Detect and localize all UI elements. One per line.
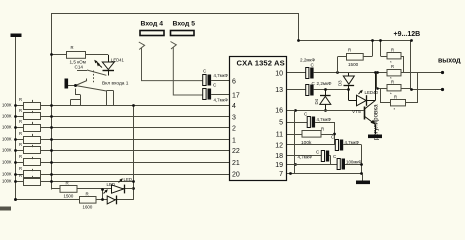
svg-text:100К: 100К [2,179,12,184]
capacitor C 2,2мкФ pin10 [306,68,309,79]
scan smudge bottom-left [0,207,11,211]
resistor 100K trimmer row 116.5 [16,116,24,118]
svg-text:1500: 1500 [348,62,359,67]
switch Вкл входа 1 [68,70,114,106]
wire output 2 [411,89,443,91]
node top-left terminal [11,34,22,38]
resistor R 1500 (bottom) [51,186,133,193]
resistor ladder: 8 trimmers 100К [2,97,53,186]
svg-text:10: 10 [275,71,283,78]
svg-text:LED41: LED41 [111,57,124,62]
svg-text:20: 20 [232,172,240,179]
capacitor C 4,7мкФ pin5 [307,117,310,128]
svg-text:1600: 1600 [83,205,93,210]
wire pin1 row [51,139,229,141]
svg-text:D4: D4 [314,98,319,104]
svg-text:100k: 100k [301,140,312,146]
svg-text:11: 11 [276,132,283,139]
svg-text:4,7мкФ: 4,7мкФ [298,155,313,160]
svg-text:R: R [348,48,351,53]
svg-text:R: R [19,173,22,178]
svg-text:D3: D3 [338,80,343,86]
resistor R out1 [381,56,388,58]
wire trimmer row 8 [16,181,133,183]
resistor 100K trimmer row 150.5 [16,150,24,152]
wire pin20 row [51,174,229,176]
svg-text:R: R [19,108,22,113]
resistor 100K trimmer row 162.5 [16,162,24,164]
svg-text:R: R [391,48,394,53]
capacitor C 2,2мкФ pin13 [306,85,309,96]
svg-text:100К: 100К [2,137,12,142]
resistor 100K trimmer row 105.5 [16,105,24,107]
wire pin5 row [287,122,308,124]
wire pin13 row [287,89,306,91]
svg-text:100К: 100К [2,125,12,130]
svg-text:17: 17 [232,93,240,100]
resistor R out2 [377,72,387,74]
svg-text:R: R [19,166,22,171]
svg-text:R: R [394,95,397,100]
wire +V rail [298,40,411,42]
svg-text:6: 6 [232,78,236,85]
resistor 100K trimmer row 139.5 [16,139,24,141]
svg-text:5: 5 [279,120,283,127]
svg-text:4,7мкФ: 4,7мкФ [214,73,229,78]
svg-text:4,7мкФ: 4,7мкФ [317,117,332,122]
svg-text:+9...12В: +9...12В [394,31,421,38]
svg-text:4,7мкФ: 4,7мкФ [214,98,229,103]
svg-text:12: 12 [275,143,283,150]
svg-text:100К: 100К [2,160,12,165]
wire pin3 row [51,116,229,118]
svg-text:100мкФ: 100мкФ [346,160,362,165]
svg-text:R: R [321,127,324,132]
svg-text:LED: LED [107,182,116,187]
svg-text:4,7мкФ: 4,7мкФ [345,140,360,145]
svg-text:100К: 100К [2,148,12,153]
wire pin7 row [287,173,363,175]
node rail corner dot [14,198,17,201]
wire pin12 row [287,144,336,146]
svg-text:R: R [66,181,69,186]
wire left bus [16,37,134,200]
wire pin2 row [51,127,229,129]
wire left vertical [376,73,378,89]
svg-text:7: 7 [279,171,283,178]
capacitor C 4,7мкФ pin18 [321,151,324,162]
resistor R out3 [377,88,387,90]
svg-text:С14: С14 [75,64,84,69]
svg-text:18: 18 [275,153,283,160]
svg-text:13: 13 [275,87,283,94]
wire pin19 row [287,164,338,166]
capacitor C 4,7мкФ pin17 [203,83,229,103]
svg-text:3: 3 [232,114,236,121]
node input jack 5 [171,42,203,96]
wire jack4 to pin 6 [142,48,203,81]
wire pin16 row to VT5 base [287,110,364,112]
op-amp IC U1 CXA 1352 AS [230,57,287,181]
svg-text:регулировка: регулировка [373,104,380,140]
wire jack5 to pin 17 [173,47,202,95]
ground VT5 emitter [368,135,382,139]
svg-text:R: R [19,97,22,102]
wire top rail [52,14,299,41]
svg-text:22: 22 [232,148,240,155]
svg-text:21: 21 [232,160,240,167]
LED LED40 [349,90,376,106]
svg-text:R: R [19,131,22,136]
wire caps common vertical [361,145,363,174]
transistor VT5 [364,73,376,134]
svg-text:Вход 4: Вход 4 [141,21,164,28]
svg-text:Вход 5: Вход 5 [173,21,196,28]
wire pin10 row [287,72,306,74]
svg-text:R: R [19,154,22,159]
wire pin4 row [51,105,229,107]
svg-text:100К: 100К [2,114,12,119]
wire output 1 [404,72,443,74]
wire pin22 row [51,150,229,152]
resistor R out4 [381,102,391,104]
svg-text:2,2мкФ: 2,2мкФ [317,81,333,86]
svg-text:R: R [71,45,74,50]
ground bottom [356,181,370,185]
diode D3 [343,73,354,90]
svg-text:19: 19 [275,162,283,169]
wire bus to 1500 resistor row [51,182,53,190]
capacitor C 4,7мкФ pin12 [335,140,338,151]
svg-text:Вкл входа 1: Вкл входа 1 [102,81,129,87]
diode D4 [320,90,331,111]
svg-text:2: 2 [232,126,236,133]
output resistor network [377,40,443,106]
wire pin18 row [287,155,322,157]
resistor R 100k [287,131,334,138]
wire vertical to LED chain [133,106,135,200]
node output dot 1 [441,71,444,74]
svg-text:VT5: VT5 [352,109,361,115]
capacitor C 4,7мкФ pin6 [203,69,229,86]
svg-text:LED40: LED40 [365,90,379,95]
wire riser left [380,40,382,56]
svg-text:R: R [19,142,22,147]
svg-text:выход: выход [438,57,461,64]
LED upper (row 189) [112,178,125,193]
wire LED link vertical [102,189,104,200]
svg-text:CXA 1352 AS: CXA 1352 AS [237,59,285,68]
node output dot 2 [441,88,444,91]
resistor R 1,5 kOm [51,52,108,59]
svg-text:16: 16 [275,108,283,115]
wire right vertical 1 [403,56,405,73]
svg-text:4: 4 [232,103,236,110]
svg-text:R: R [86,192,89,197]
resistor R 1500 (top) [338,40,373,73]
svg-text:1500: 1500 [64,194,74,199]
wire ladder right bus [51,13,53,182]
node switch pole bar [65,79,69,89]
node input jack 4 [139,42,203,81]
LED lower (row 199.9) [104,189,117,204]
capacitor C 100мкФ pin19 [337,159,340,170]
wire vertical beside IC [294,110,296,174]
svg-text:100К: 100К [2,103,12,108]
resistor 100K trimmer row 181.5 [16,181,24,183]
resistor 100K trimmer row 127.5 [16,127,24,129]
wire vertical cap join [334,122,336,145]
resistor R 1600 (bottom) [80,197,97,204]
wire pin21 row [51,162,229,164]
svg-text:LED: LED [124,177,133,182]
svg-text:100К: 100К [2,172,12,177]
svg-text:R: R [19,119,22,124]
LED LED41 [94,55,114,76]
wire riser right from +V [410,40,412,88]
svg-text:1: 1 [232,137,236,144]
resistor 100K trimmer row 174.5 [16,174,24,176]
